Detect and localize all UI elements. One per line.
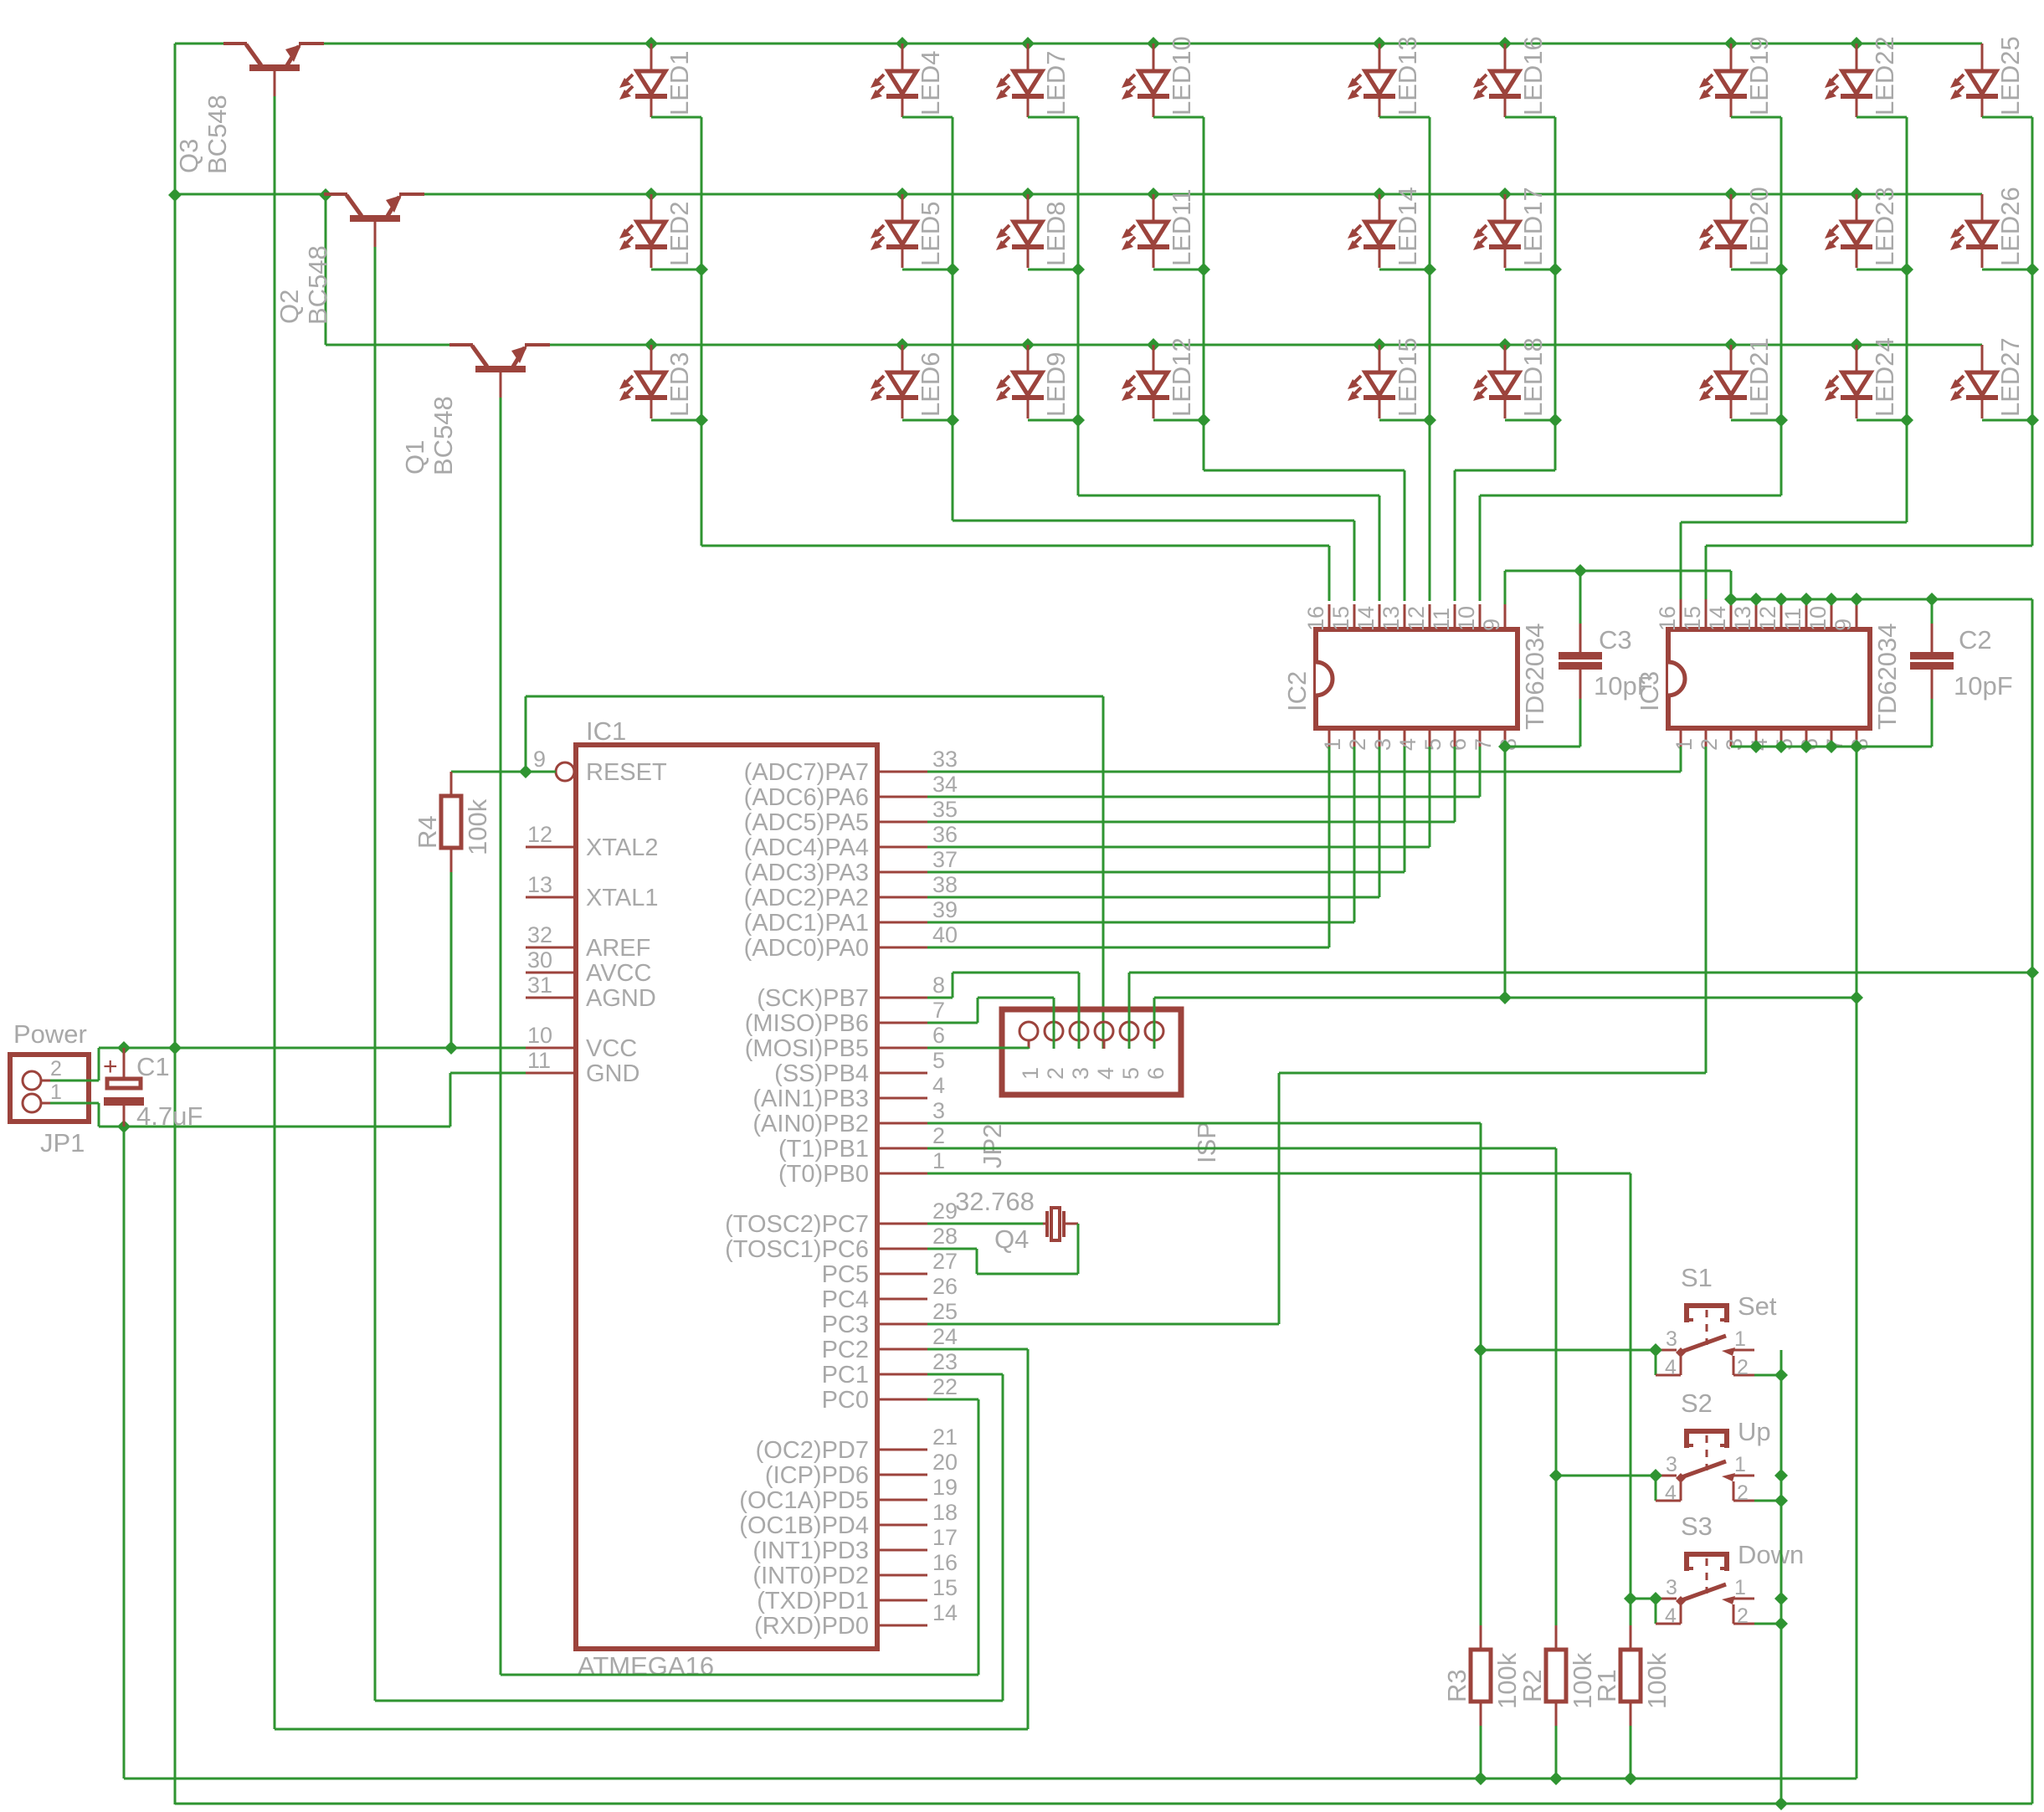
junction S1 left	[1649, 1343, 1662, 1357]
svg-text:16: 16	[932, 1550, 958, 1575]
wire ISP pin5 to GND rail	[1129, 973, 2032, 1049]
svg-text:4.7uF: 4.7uF	[136, 1101, 203, 1131]
svg-text:Q4: Q4	[994, 1224, 1029, 1254]
wire right GND rail	[2031, 599, 2034, 1804]
svg-text:LED26: LED26	[1995, 187, 2025, 266]
svg-text:5: 5	[932, 1048, 945, 1073]
wire PC6 to crystal	[927, 1224, 1078, 1274]
svg-text:(INT1)PD3: (INT1)PD3	[752, 1537, 869, 1564]
wire GND bottom rail (to IC3 pin8)	[124, 1778, 1857, 1780]
IC2 pins 16-9 (top stubs and numbers)	[1303, 604, 1505, 631]
wire LED column 3 cathode bus	[1028, 117, 1379, 601]
wire LED column 8 cathode bus	[1681, 117, 1913, 599]
svg-text:(OC1B)PD4: (OC1B)PD4	[739, 1512, 869, 1539]
svg-text:PC1: PC1	[822, 1362, 869, 1389]
wire IC2 pin9 to IC3 pin14 (GND clamp)	[1505, 571, 1731, 604]
label R1 100k	[1592, 1652, 1672, 1709]
wire PB1 to S2/R2	[927, 1148, 1556, 1625]
wire row1 rail (Q3 emitter to LED25)	[333, 43, 1982, 45]
svg-text:2: 2	[1043, 1067, 1068, 1080]
wire IC2 pins1-7 to PA0-PA6	[1329, 747, 1480, 947]
svg-text:22: 22	[932, 1374, 958, 1399]
svg-text:(RXD)PD0: (RXD)PD0	[754, 1613, 869, 1640]
svg-text:15: 15	[1328, 606, 1353, 631]
LED LED15	[1348, 337, 1422, 418]
resistor R3 body	[1471, 1625, 1491, 1726]
svg-text:(MISO)PB6: (MISO)PB6	[745, 1010, 869, 1037]
wire R2 bottom	[1555, 1726, 1558, 1779]
junction C3 top	[1574, 564, 1587, 577]
svg-text:XTAL2: XTAL2	[586, 834, 659, 861]
wire S2 left	[1556, 1475, 1656, 1477]
svg-text:38: 38	[932, 872, 958, 897]
svg-text:IC3: IC3	[1635, 671, 1664, 711]
svg-text:14: 14	[932, 1600, 958, 1625]
label IC3	[1635, 671, 1664, 711]
LED LED13	[1348, 36, 1422, 117]
svg-text:TD62034: TD62034	[1520, 623, 1549, 730]
svg-text:IC2: IC2	[1282, 671, 1312, 711]
svg-text:C2: C2	[1959, 625, 1992, 654]
LED LED12	[1122, 337, 1196, 418]
op-amp IC2 body (TD62034)	[1316, 629, 1518, 728]
wire ISP pin6 to VCC net	[1154, 998, 1857, 1049]
svg-text:5: 5	[1118, 1067, 1143, 1080]
svg-text:(OC2)PD7: (OC2)PD7	[756, 1437, 869, 1464]
LED LED9	[996, 345, 1071, 418]
wire IC3 pin8 GND drop	[1856, 747, 1858, 1779]
resistor R1 body	[1620, 1625, 1641, 1726]
wire R4 top	[451, 771, 526, 773]
svg-text:LED3: LED3	[665, 352, 694, 417]
label 4.7uF	[136, 1101, 203, 1131]
svg-text:4: 4	[1395, 738, 1420, 751]
svg-text:(OC1A)PD5: (OC1A)PD5	[739, 1487, 869, 1514]
svg-text:15: 15	[1680, 606, 1705, 631]
svg-text:2: 2	[50, 1057, 62, 1081]
svg-text:Power: Power	[13, 1019, 87, 1049]
svg-text:10pF: 10pF	[1954, 671, 2013, 701]
LED LED20	[1699, 187, 1774, 268]
junction S2 left	[1649, 1469, 1662, 1482]
svg-text:2: 2	[1737, 1604, 1749, 1628]
svg-text:(SCK)PB7: (SCK)PB7	[757, 985, 869, 1012]
svg-text:11: 11	[527, 1048, 551, 1073]
wire Q1 collector feed	[326, 195, 462, 345]
svg-text:LED23: LED23	[1870, 187, 1899, 266]
LED LED7	[996, 44, 1071, 117]
svg-text:32.768: 32.768	[955, 1187, 1035, 1216]
svg-text:R4: R4	[413, 815, 442, 849]
svg-text:(T1)PB1: (T1)PB1	[778, 1136, 869, 1163]
svg-text:Up: Up	[1738, 1417, 1771, 1446]
wire GND column x=148	[123, 1127, 126, 1779]
svg-text:12: 12	[1404, 606, 1429, 631]
wire IC3 pin1 to PA7	[1680, 747, 1682, 772]
svg-text:28: 28	[932, 1224, 958, 1249]
LED LED1	[619, 44, 694, 117]
junction IC3 pin8	[1850, 740, 1863, 753]
LED LED8	[996, 194, 1071, 268]
svg-text:(TOSC1)PC6: (TOSC1)PC6	[725, 1236, 869, 1263]
svg-text:16: 16	[1303, 606, 1328, 631]
wire IC3 pins3-8 common chain	[1731, 740, 1932, 753]
svg-text:1: 1	[1320, 738, 1345, 751]
svg-text:Q2: Q2	[275, 290, 304, 324]
connector JP1 (Power)	[10, 1055, 89, 1122]
svg-text:LED2: LED2	[665, 201, 694, 266]
LED LED17	[1473, 187, 1548, 268]
wire SCK PB7 to ISP pin3	[927, 973, 1079, 1049]
svg-text:2: 2	[1737, 1356, 1749, 1379]
svg-text:LED7: LED7	[1041, 50, 1071, 115]
svg-text:3: 3	[1722, 738, 1747, 751]
LED LED25	[1950, 36, 2025, 117]
LED LED26	[1950, 187, 2025, 268]
wire switch right chain to GND rail	[1774, 1350, 1788, 1804]
op-amp IC3 body (TD62034)	[1668, 629, 1870, 728]
svg-text:S1: S1	[1681, 1263, 1713, 1292]
svg-text:AREF: AREF	[586, 935, 650, 962]
IC1 right pins (PA PB PC PD stubs names numbers)	[725, 747, 958, 1640]
svg-text:LED21: LED21	[1744, 337, 1774, 417]
svg-text:6: 6	[1143, 1067, 1168, 1080]
svg-text:27: 27	[932, 1249, 958, 1274]
svg-text:1: 1	[1672, 738, 1697, 751]
wire C3 bottom to IC2 pin8	[1505, 746, 1580, 748]
svg-text:LED13: LED13	[1393, 36, 1422, 115]
svg-text:12: 12	[1755, 606, 1780, 631]
svg-text:5: 5	[1420, 738, 1446, 751]
svg-text:3: 3	[1068, 1067, 1093, 1080]
svg-text:Set: Set	[1738, 1291, 1777, 1321]
svg-text:7: 7	[932, 998, 945, 1023]
junction VCC column at VCC line	[168, 1041, 182, 1055]
wire LED column 7 cathode bus	[1480, 117, 1788, 601]
LED LED14	[1348, 187, 1422, 268]
svg-text:8: 8	[932, 973, 945, 998]
svg-text:LED27: LED27	[1995, 337, 2025, 417]
junction PB2 at S1	[1474, 1343, 1487, 1357]
junctions row2 rail at LED columns	[645, 187, 1863, 201]
label R2 100k	[1518, 1652, 1597, 1709]
wire PC3 to IC3 pin2 riser	[927, 1073, 1279, 1324]
junction R3 at GND rail	[1474, 1772, 1487, 1785]
label C2 10pF	[1954, 625, 2013, 701]
svg-text:20: 20	[932, 1450, 958, 1475]
junction PB0 at S3	[1624, 1592, 1637, 1605]
wire PC1 to Q2 base	[375, 247, 1003, 1701]
svg-text:LED20: LED20	[1744, 187, 1774, 266]
svg-text:(TXD)PD1: (TXD)PD1	[757, 1588, 869, 1614]
svg-text:(ADC3)PA3: (ADC3)PA3	[744, 860, 869, 886]
junction R1 at GND rail	[1624, 1772, 1637, 1785]
wire PC7 to crystal	[927, 1223, 1043, 1225]
svg-text:LED5: LED5	[916, 201, 945, 266]
junction R4 at VCC line	[444, 1041, 458, 1055]
wire PA7 to IC3 pin1	[927, 771, 1681, 773]
svg-text:30: 30	[527, 947, 552, 973]
svg-text:2: 2	[1345, 738, 1370, 751]
transistor Q2 (BC548)	[175, 194, 427, 247]
wire VCC bottom rail (to right rail)	[175, 1803, 2032, 1805]
svg-text:2: 2	[1737, 1481, 1749, 1505]
wire MOSI PB5 to ISP pin1	[927, 1048, 1029, 1049]
svg-text:LED1: LED1	[665, 50, 694, 115]
svg-text:C3: C3	[1599, 625, 1632, 654]
wire R3 bottom	[1480, 1726, 1482, 1779]
LED LED2	[619, 194, 694, 268]
svg-text:2: 2	[1697, 738, 1722, 751]
svg-text:AVCC: AVCC	[586, 960, 651, 987]
svg-text:PC0: PC0	[822, 1387, 869, 1414]
svg-text:Down: Down	[1738, 1540, 1804, 1569]
LED LED22	[1825, 36, 1899, 117]
junction IC3 pin8 at ISP pin6 line	[1850, 991, 1863, 1004]
svg-text:31: 31	[527, 973, 552, 998]
svg-text:XTAL1: XTAL1	[586, 885, 659, 911]
svg-text:PC5: PC5	[822, 1261, 869, 1288]
svg-text:(ADC4)PA4: (ADC4)PA4	[744, 834, 869, 861]
svg-text:GND: GND	[586, 1060, 639, 1087]
junction IC2 pin8 at VCC/ISP line	[1498, 991, 1512, 1004]
svg-text:LED4: LED4	[916, 50, 945, 115]
junction switch chain at GND rail	[1774, 1797, 1788, 1810]
IC3 pins 1-8 (bottom stubs and numbers)	[1672, 728, 1872, 751]
svg-text:LED6: LED6	[916, 352, 945, 417]
svg-text:13: 13	[527, 872, 552, 897]
wire PC0 to Q1 base	[501, 398, 978, 1675]
svg-text:35: 35	[932, 797, 958, 822]
svg-text:BC548: BC548	[303, 245, 332, 325]
svg-text:LED12: LED12	[1167, 337, 1196, 417]
svg-text:LED18: LED18	[1518, 337, 1548, 417]
svg-text:15: 15	[932, 1575, 958, 1600]
svg-text:14: 14	[1353, 606, 1379, 631]
label JP1	[40, 1128, 85, 1158]
svg-text:19: 19	[932, 1475, 958, 1500]
LED LED6	[870, 345, 945, 418]
svg-text:C1: C1	[136, 1052, 170, 1081]
svg-text:LED25: LED25	[1995, 36, 2025, 115]
svg-text:25: 25	[932, 1299, 958, 1324]
LED LED3	[619, 345, 694, 418]
label C1	[136, 1052, 170, 1081]
svg-text:(MOSI)PB5: (MOSI)PB5	[745, 1035, 869, 1062]
svg-text:S3: S3	[1681, 1512, 1713, 1541]
svg-text:PC4: PC4	[822, 1286, 869, 1313]
svg-text:(ADC7)PA7: (ADC7)PA7	[744, 759, 869, 786]
svg-text:+: +	[103, 1053, 118, 1081]
LED LED19	[1699, 36, 1774, 117]
svg-text:37: 37	[932, 847, 958, 872]
svg-text:4: 4	[1093, 1067, 1118, 1080]
junction PB1 at S2	[1549, 1469, 1563, 1482]
svg-text:LED15: LED15	[1393, 337, 1422, 417]
svg-text:14: 14	[1705, 606, 1730, 631]
svg-text:1: 1	[1018, 1067, 1043, 1080]
svg-text:29: 29	[932, 1199, 958, 1224]
svg-text:LED24: LED24	[1870, 337, 1899, 417]
svg-text:(TOSC2)PC7: (TOSC2)PC7	[725, 1211, 869, 1238]
svg-text:11: 11	[1429, 608, 1454, 631]
wire R4 bottom to VCC line	[450, 872, 453, 1048]
svg-text:(AIN1)PB3: (AIN1)PB3	[752, 1086, 869, 1112]
wire row3 rail (Q1 emitter to LED27)	[578, 344, 1982, 346]
svg-text:12: 12	[527, 822, 552, 847]
label IC3 value TD62034	[1872, 623, 1902, 730]
junction S3 left	[1649, 1592, 1662, 1605]
LED LED11	[1122, 189, 1196, 269]
svg-text:34: 34	[932, 772, 958, 797]
svg-text:16: 16	[1655, 606, 1680, 631]
label R3 100k	[1442, 1652, 1522, 1709]
IC3 pins 16-9 (top stubs and numbers)	[1655, 599, 1857, 631]
svg-text:AGND: AGND	[586, 985, 656, 1012]
svg-text:39: 39	[932, 897, 958, 922]
label S2	[1681, 1389, 1713, 1418]
svg-text:(AIN0)PB2: (AIN0)PB2	[752, 1111, 869, 1137]
svg-text:23: 23	[932, 1349, 958, 1374]
svg-text:26: 26	[932, 1274, 958, 1299]
svg-text:PC2: PC2	[822, 1337, 869, 1363]
label Q2 BC548	[275, 245, 332, 325]
transistor Q1 (BC548)	[449, 345, 578, 398]
svg-text:VCC: VCC	[586, 1035, 637, 1062]
svg-text:ATMEGA16: ATMEGA16	[578, 1651, 714, 1681]
LED LED27	[1950, 337, 2025, 418]
svg-text:LED22: LED22	[1870, 36, 1899, 115]
capacitor C1 (4.7uF electrolytic)	[103, 1048, 144, 1127]
svg-text:S2: S2	[1681, 1389, 1713, 1418]
svg-text:36: 36	[932, 822, 958, 847]
svg-text:2: 2	[932, 1123, 945, 1148]
svg-text:(ADC1)PA1: (ADC1)PA1	[744, 910, 869, 937]
svg-text:7: 7	[1471, 738, 1496, 751]
svg-text:JP1: JP1	[40, 1128, 85, 1158]
svg-text:(ADC2)PA2: (ADC2)PA2	[744, 885, 869, 911]
wire IC3 input chain (pins 14-9) to C2 and right rail	[1724, 593, 2032, 606]
svg-text:1: 1	[50, 1081, 62, 1104]
svg-text:LED16: LED16	[1518, 36, 1548, 115]
junctions row1 rail at LED columns	[645, 37, 1863, 50]
svg-text:R1: R1	[1592, 1669, 1621, 1702]
svg-text:PC3: PC3	[822, 1312, 869, 1338]
svg-text:JP2: JP2	[978, 1124, 1007, 1168]
junction Q2 collector node	[319, 188, 332, 202]
junction VCC column at row2 feed	[168, 188, 182, 202]
svg-text:LED19: LED19	[1744, 36, 1774, 115]
wire IC3 pin2 to PC3 riser	[1279, 747, 1706, 1073]
label S3	[1681, 1512, 1713, 1541]
label Down	[1738, 1540, 1804, 1569]
svg-text:21: 21	[932, 1424, 958, 1450]
svg-text:(ICP)PD6: (ICP)PD6	[765, 1462, 869, 1489]
svg-text:6: 6	[932, 1023, 945, 1048]
resistor R4 body	[441, 772, 461, 872]
svg-text:1: 1	[932, 1148, 945, 1173]
svg-text:(T0)PB0: (T0)PB0	[778, 1161, 869, 1188]
connector JP2 (ISP header)	[1002, 1009, 1181, 1095]
junction C1 top	[117, 1041, 131, 1055]
junction R2 at GND rail	[1549, 1772, 1563, 1785]
svg-text:100k: 100k	[1642, 1652, 1672, 1709]
svg-text:40: 40	[932, 922, 958, 947]
svg-text:LED8: LED8	[1041, 201, 1071, 266]
svg-text:TD62034: TD62034	[1872, 623, 1902, 730]
wire S3 left	[1631, 1598, 1656, 1600]
label Power	[13, 1019, 87, 1049]
svg-text:9: 9	[533, 747, 546, 772]
svg-text:Q3: Q3	[174, 139, 203, 173]
svg-text:3: 3	[1370, 738, 1395, 751]
svg-text:1: 1	[1734, 1327, 1746, 1351]
svg-text:4: 4	[1665, 1481, 1677, 1505]
svg-text:(ADC6)PA6: (ADC6)PA6	[744, 784, 869, 811]
capacitor C3	[1559, 571, 1602, 747]
LED LED16	[1473, 36, 1548, 117]
capacitor C2	[1910, 599, 1954, 747]
svg-text:17: 17	[932, 1525, 958, 1550]
svg-text:4: 4	[1665, 1604, 1677, 1628]
LED LED21	[1699, 337, 1774, 418]
wire LED column 4 cathode bus	[1153, 117, 1405, 601]
wire LED column 5 cathode bus	[1379, 117, 1436, 601]
svg-text:LED11: LED11	[1167, 189, 1196, 267]
svg-text:3: 3	[1666, 1453, 1677, 1476]
resistor R2 body	[1546, 1625, 1566, 1726]
svg-text:3: 3	[1666, 1576, 1677, 1599]
label Set	[1738, 1291, 1777, 1321]
IC1 left pins (RESET XTAL AREF AVCC AGND VCC GND)	[526, 747, 667, 1087]
label R4 100k	[413, 798, 492, 855]
label JP2	[978, 1124, 1007, 1168]
LED LED24	[1825, 337, 1899, 418]
svg-text:3: 3	[932, 1098, 945, 1123]
label ATMEGA16	[578, 1651, 714, 1681]
wire VCC from JP1 pin2	[50, 1048, 526, 1081]
svg-text:Q1: Q1	[400, 440, 429, 475]
wire MISO PB6 to ISP pin2	[927, 998, 1054, 1049]
wire LED column 6 cathode bus	[1455, 117, 1562, 601]
svg-text:9: 9	[1831, 619, 1856, 631]
LED LED10	[1122, 36, 1196, 117]
IC IC1 body (ATMEGA16)	[576, 745, 877, 1649]
wire LED column 2 cathode bus	[902, 117, 1354, 601]
svg-text:(INT0)PD2: (INT0)PD2	[752, 1563, 869, 1589]
wire row2 rail (Q2 emitter to LED26)	[427, 193, 1982, 196]
svg-text:BC548: BC548	[429, 396, 458, 475]
IC2 pins 1-8 (bottom stubs and numbers)	[1320, 728, 1521, 751]
LED LED23	[1825, 187, 1899, 268]
LED LED4	[870, 44, 945, 117]
wire PA6-PA0 to IC2 pins7-1	[927, 797, 1480, 947]
label S1	[1681, 1263, 1713, 1292]
svg-text:LED9: LED9	[1041, 352, 1071, 417]
junction right rail at ISP pin5 line	[2026, 966, 2039, 979]
label IC2 value TD62034	[1520, 623, 1549, 730]
svg-text:(ADC5)PA5: (ADC5)PA5	[744, 809, 869, 836]
wire S1 left	[1481, 1349, 1656, 1352]
crystal Q4 (32.768)	[1043, 1208, 1078, 1240]
junctions row3 rail at LED columns	[645, 338, 1863, 352]
svg-text:11: 11	[1780, 608, 1805, 631]
svg-text:18: 18	[932, 1500, 958, 1525]
junction IC2 pin8	[1498, 740, 1512, 753]
svg-text:LED14: LED14	[1393, 187, 1422, 266]
wire VCC column x=209	[174, 44, 177, 1804]
svg-text:32: 32	[527, 922, 552, 947]
